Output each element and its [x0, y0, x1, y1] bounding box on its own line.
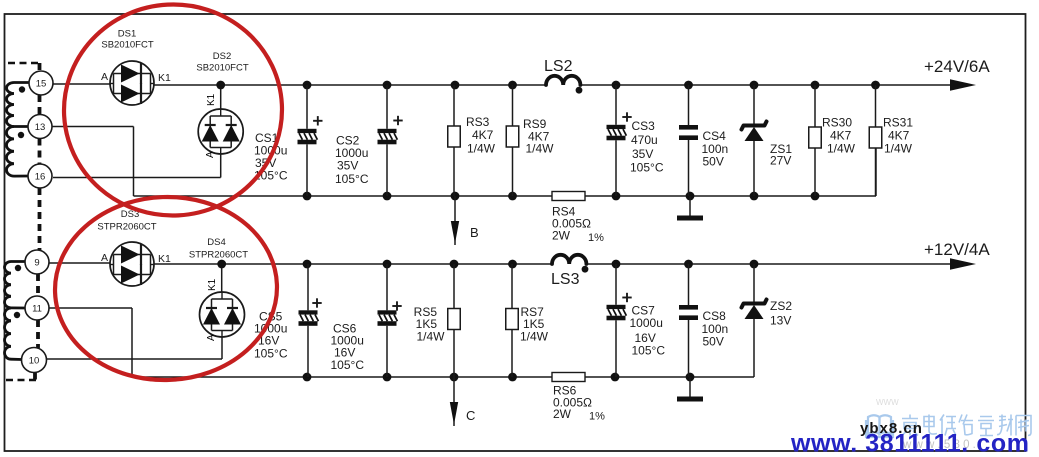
wire: bottom rail right of RS4	[585, 195, 876, 197]
dual diode DS2 SB2010FCT	[198, 109, 243, 154]
label RS6 values	[553, 384, 605, 423]
svg-text:1/4W: 1/4W	[467, 142, 496, 156]
svg-text:RS3: RS3	[466, 115, 490, 129]
wire: bottom rail 2 left of RS6	[132, 376, 552, 378]
label CS6 values	[331, 322, 365, 373]
label CS3 values	[630, 119, 664, 175]
svg-text:470u: 470u	[631, 133, 658, 147]
capacitor CS8	[679, 264, 698, 377]
zener diode ZS2	[742, 264, 767, 377]
wire: bottom rail 2 right of RS6	[585, 376, 754, 378]
junction node x=307 bottom rail 2	[303, 373, 312, 382]
wire: DS4 anode down from circle	[221, 337, 223, 360]
svg-text:LS2: LS2	[544, 58, 573, 75]
ground below CS8	[677, 377, 703, 402]
label RS5 values	[414, 305, 446, 344]
capacitor CS3	[607, 85, 632, 196]
svg-text:35V: 35V	[632, 147, 653, 161]
capacitor CS4	[679, 85, 698, 196]
svg-text:105°C: 105°C	[254, 347, 288, 361]
node C arrow	[450, 377, 476, 426]
svg-text:ZS2: ZS2	[770, 299, 792, 313]
resistor RS4	[552, 192, 585, 201]
watermark book icon light blue	[866, 415, 893, 437]
svg-text:C: C	[466, 408, 475, 423]
junction node x=815 bottom rail 1	[811, 192, 820, 201]
svg-text:1/4W: 1/4W	[416, 330, 445, 344]
svg-text:105°C: 105°C	[630, 161, 664, 175]
svg-text:A: A	[101, 71, 108, 83]
ground below CS4	[677, 196, 703, 221]
junction node x=454 top rail 2	[450, 260, 459, 269]
capacitor CS1	[298, 85, 323, 196]
junction node x=387 bottom rail 2	[383, 373, 392, 382]
label CS7 values	[630, 304, 666, 358]
transformer core dashed vertical line	[35, 63, 40, 380]
svg-text:SB2010FCT: SB2010FCT	[101, 40, 153, 51]
svg-text:1/4W: 1/4W	[827, 142, 856, 156]
label RS3 values	[466, 115, 496, 156]
svg-text:1000u: 1000u	[630, 316, 663, 330]
phase dot winding 3	[15, 265, 21, 271]
phase dot winding 1	[19, 86, 25, 92]
svg-text:RS30: RS30	[822, 116, 852, 130]
transformer terminal 13	[28, 115, 52, 139]
label CS1 values	[254, 131, 288, 183]
svg-text:50V: 50V	[703, 155, 724, 169]
wire: DS2 anode down from circle	[220, 154, 222, 178]
svg-text:A: A	[101, 252, 108, 264]
wire: bottom rail left of RS4	[134, 195, 553, 197]
svg-text:105°C: 105°C	[632, 344, 666, 358]
svg-text:9: 9	[34, 258, 39, 269]
transformer terminal 10	[22, 348, 47, 373]
output arrow +24V/6A	[924, 57, 990, 91]
label RS30 values	[822, 116, 856, 156]
junction node x=690 bottom rail 1	[686, 192, 695, 201]
inductor LS3	[552, 255, 588, 273]
winding 4 (terminals 11-10)	[4, 308, 22, 360]
svg-text:27V: 27V	[770, 154, 791, 168]
wire: top rail after LS3 to output arrow	[586, 263, 952, 265]
resistor RS7	[506, 264, 519, 377]
capacitor CS5	[299, 264, 322, 377]
label ZS2 values	[770, 299, 792, 328]
wire: center-tap vertical down to bottom rail	[133, 127, 135, 197]
label RS9 values	[523, 117, 554, 156]
svg-text:SB2010FCT: SB2010FCT	[196, 63, 248, 74]
winding 2 (terminals 13-16)	[6, 127, 28, 177]
svg-text:DS2: DS2	[213, 51, 231, 62]
wire: bottom rail corner up to RS31	[875, 148, 877, 196]
junction node DS4 cathode on top rail 2	[217, 260, 226, 269]
junction node x=307 bottom rail 1	[303, 192, 312, 201]
phase dot winding 2	[18, 132, 24, 138]
svg-text:www. 3811111. com: www. 3811111. com	[790, 430, 1030, 457]
wire: terminal 9 to DS3 anode	[49, 262, 110, 264]
svg-text:K1: K1	[206, 93, 217, 106]
junction node x=307 top rail 1	[303, 81, 312, 90]
svg-text:K1: K1	[207, 278, 218, 291]
svg-text:2W: 2W	[552, 229, 571, 243]
label CS8 values	[702, 309, 729, 349]
junction node x=307 top rail 2	[303, 260, 312, 269]
junction node x=688.5 top rail 2	[684, 260, 693, 269]
svg-text:B: B	[470, 225, 479, 240]
label CS4 values	[702, 129, 729, 169]
svg-text:STPR2060CT: STPR2060CT	[97, 222, 156, 233]
svg-text:1%: 1%	[589, 411, 605, 423]
svg-text:50V: 50V	[703, 335, 724, 349]
transformer terminal 9	[25, 250, 49, 274]
red highlight oval lower (around DS3/DS4)	[52, 193, 280, 384]
wire: terminal 10 to DS4 anode	[46, 358, 222, 360]
zener diode ZS1	[742, 85, 767, 196]
junction node x=875.5 top rail 1 right	[871, 81, 880, 90]
resistor RS5	[448, 264, 461, 377]
svg-text:10: 10	[29, 356, 40, 367]
junction node x=616 top rail 2	[612, 260, 621, 269]
resistor RS3	[448, 85, 461, 196]
wire: top rail after LS2 to output arrow	[580, 84, 952, 86]
junction node x=815 top rail 1 right	[811, 81, 820, 90]
output arrow +12V/4A	[924, 240, 990, 270]
dual diode DS4 STPR2060CT	[200, 292, 245, 337]
svg-text:4K7: 4K7	[472, 128, 494, 142]
label RS4 values	[552, 205, 604, 245]
junction node x=616 bottom rail 1	[612, 192, 621, 201]
svg-text:4K7: 4K7	[888, 129, 910, 143]
label CS2 values	[335, 134, 369, 187]
svg-text:16: 16	[35, 172, 46, 183]
svg-text:A: A	[206, 334, 217, 341]
junction node x=387 bottom rail 1	[383, 192, 392, 201]
junction node x=688.5 top rail 1 right	[684, 81, 693, 90]
resistor RS6	[552, 373, 585, 382]
transformer terminal 15	[29, 71, 53, 95]
transformer core dashed top line	[8, 62, 40, 65]
svg-text:A: A	[205, 151, 216, 158]
wire: +24V top rail	[154, 84, 546, 86]
svg-text:105°C: 105°C	[335, 172, 369, 186]
svg-text:CS3: CS3	[632, 119, 656, 133]
label ZS1 values	[770, 142, 792, 168]
svg-text:105°C: 105°C	[331, 358, 365, 372]
junction node x=754 bottom rail 1	[750, 192, 759, 201]
svg-text:35V: 35V	[337, 159, 358, 173]
dual diode DS1 SB2010FCT	[110, 61, 154, 105]
svg-text:K1: K1	[158, 72, 171, 84]
transformer dashed bottom line	[6, 379, 37, 382]
svg-text:13V: 13V	[770, 314, 791, 328]
phase dot winding 4	[14, 312, 20, 318]
transformer terminal 16	[28, 164, 52, 188]
svg-text:1/4W: 1/4W	[520, 330, 549, 344]
junction node x=387 top rail 2	[383, 260, 392, 269]
junction node x=455 top rail 1	[451, 81, 460, 90]
winding 3 (terminals 9-11)	[4, 262, 25, 309]
winding 1 (terminals 15-13)	[7, 83, 30, 127]
junction node x=512.5 top rail 2	[508, 260, 517, 269]
wire: terminal 11 to center-tap corner	[49, 307, 132, 309]
dual diode DS3 STPR2060CT	[110, 242, 154, 286]
resistor RS31	[869, 85, 882, 196]
svg-text:WWW: WWW	[876, 398, 899, 407]
junction node x=754 top rail 2	[750, 260, 759, 269]
junction node x=754 top rail 1 right	[750, 81, 759, 90]
svg-text:4K7: 4K7	[830, 129, 852, 143]
svg-text:LS3: LS3	[551, 271, 580, 288]
svg-text:K1: K1	[158, 253, 171, 265]
wire: center-tap vertical down to bottom rail 2	[131, 308, 133, 377]
capacitor CS7	[607, 264, 632, 377]
junction node x=616 top rail 1 right	[612, 81, 621, 90]
svg-text:1/4W: 1/4W	[526, 142, 555, 156]
wire: terminal 16 to DS2 anode	[53, 177, 221, 179]
junction node x=512.5 bottom rail 1	[508, 192, 517, 201]
svg-text:STPR2060CT: STPR2060CT	[189, 250, 248, 261]
wire: DS4 cathode from top rail 2	[221, 264, 223, 293]
node B arrow	[451, 196, 479, 245]
svg-text:DS1: DS1	[118, 29, 136, 40]
svg-text:CS4: CS4	[703, 129, 727, 143]
svg-text:15: 15	[36, 79, 47, 90]
junction node DS2 cathode on top rail	[216, 81, 225, 90]
junction node x=615 bottom rail 2	[611, 373, 620, 382]
capacitor CS2	[378, 85, 403, 196]
junction node x=690 bottom rail 2	[686, 373, 695, 382]
watermark chinese characters (approximated glyphs)	[902, 415, 1031, 436]
wire: +12V top rail	[154, 263, 552, 265]
svg-text:DS4: DS4	[207, 237, 225, 248]
svg-text:2W: 2W	[553, 407, 572, 421]
wire: terminal 13 to center-tap corner	[52, 126, 134, 128]
label CS5 values	[254, 310, 288, 361]
junction node x=512.5 bottom rail 2	[508, 373, 517, 382]
svg-text:1/4W: 1/4W	[884, 142, 913, 156]
svg-text:1%: 1%	[588, 232, 604, 244]
wire: terminal 15 to DS1 anode	[53, 83, 110, 85]
capacitor CS6	[378, 264, 402, 377]
junction node x=454 bottom rail 2	[450, 373, 459, 382]
svg-text:13: 13	[35, 122, 46, 133]
junction node x=387 top rail 1	[383, 81, 392, 90]
svg-text:CS8: CS8	[703, 309, 727, 323]
wire: DS2 cathode from top rail	[220, 85, 222, 110]
inductor LS2	[546, 76, 582, 94]
svg-text:+12V/4A: +12V/4A	[924, 240, 990, 259]
svg-text:RS31: RS31	[883, 116, 913, 130]
label RS31 values	[883, 116, 913, 156]
label RS7 values	[520, 305, 549, 344]
resistor RS30	[809, 85, 822, 196]
resistor RS9	[506, 85, 519, 196]
junction node x=512.5 top rail 1	[508, 81, 517, 90]
red highlight oval upper (around DS1/DS2)	[59, 0, 288, 221]
svg-text:+24V/6A: +24V/6A	[924, 57, 990, 76]
junction node x=455 bottom rail 1	[451, 192, 460, 201]
svg-text:11: 11	[32, 304, 42, 315]
transformer terminal 11	[25, 296, 49, 320]
